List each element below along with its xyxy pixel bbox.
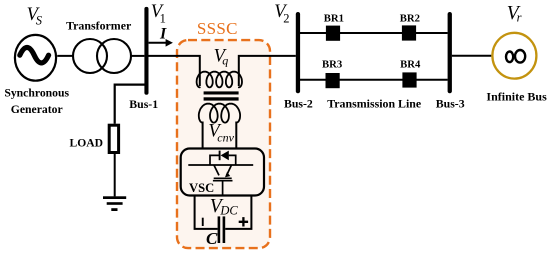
svg-text:Bus-2: Bus-2: [284, 97, 313, 111]
SSSC enclosure box: [177, 40, 270, 248]
series transformer primary winding: [197, 72, 242, 88]
label Vq: [214, 46, 229, 67]
label VDC: [210, 196, 239, 218]
IGBT with antiparallel diode: [188, 151, 253, 195]
breaker BR1: [326, 26, 340, 41]
svg-text:S: S: [36, 14, 43, 28]
svg-text:Transformer: Transformer: [66, 19, 132, 33]
series transformer core: [204, 91, 239, 100]
ground: [103, 196, 126, 211]
wire VSC left lead to DC capacitor: [195, 196, 218, 229]
svg-text:Transmission Line: Transmission Line: [327, 97, 421, 111]
svg-text:BR2: BR2: [400, 12, 420, 24]
label V2: [274, 2, 289, 25]
label C: [206, 229, 218, 248]
svg-text:q: q: [222, 54, 228, 68]
bus bar Bus-3: [448, 12, 452, 93]
label BR1: [324, 12, 344, 24]
svg-text:Synchronous: Synchronous: [4, 87, 69, 100]
svg-text:cnv: cnv: [217, 131, 234, 145]
transformer T: [73, 39, 131, 73]
svg-text:Bus-1: Bus-1: [129, 97, 158, 111]
converter VSC box: [181, 149, 264, 196]
wire load to ground: [114, 153, 116, 197]
breaker BR3: [326, 73, 340, 88]
bus bar Bus-1: [144, 7, 148, 95]
label Vcnv: [208, 122, 234, 145]
svg-text:Generator: Generator: [11, 103, 63, 116]
svg-text:1: 1: [160, 11, 166, 25]
wire series transformer right lead to Bus-2: [239, 56, 296, 86]
label V1: [151, 2, 166, 25]
transmission line upper conductor: [300, 32, 448, 34]
svg-text:Bus-3: Bus-3: [436, 97, 465, 111]
label Bus-1: [129, 97, 158, 111]
label I: [159, 25, 167, 42]
svg-text:Infinite Bus: Infinite Bus: [486, 90, 547, 104]
label BR3: [322, 58, 342, 70]
label Transmission Line: [327, 97, 421, 111]
label VSC: [189, 181, 214, 195]
label SSSC: [197, 19, 238, 38]
wire transformer to Bus-1: [132, 55, 144, 57]
wire generator to transformer: [57, 55, 74, 57]
breaker BR2: [402, 25, 416, 40]
label BR4: [400, 58, 421, 70]
plus terminal mark: [239, 217, 248, 226]
svg-text:LOAD: LOAD: [70, 137, 104, 150]
label LOAD: [70, 137, 104, 150]
transmission line lower conductor: [300, 79, 448, 81]
minus terminal mark: [202, 218, 204, 226]
current arrow: [149, 39, 173, 47]
synchronous generator G: [15, 35, 56, 81]
svg-text:DC: DC: [219, 204, 238, 218]
resistor LOAD: [109, 125, 118, 152]
svg-text:SSSC: SSSC: [197, 19, 238, 38]
label BR2: [400, 12, 420, 24]
wire Bus-1 to load branch: [115, 85, 146, 124]
wire secondary left lead to VSC: [202, 122, 204, 149]
label Vr: [507, 3, 522, 24]
label Transformer: [66, 19, 132, 33]
infinite bus source: [492, 33, 536, 79]
svg-text:C: C: [206, 229, 218, 248]
wire VSC right lead to DC capacitor: [225, 196, 251, 229]
svg-text:VSC: VSC: [189, 181, 214, 195]
label Infinite Bus: [486, 90, 547, 104]
svg-text:2: 2: [283, 11, 289, 25]
series transformer secondary winding: [199, 104, 240, 123]
breaker BR4: [402, 72, 416, 87]
svg-text:BR1: BR1: [324, 12, 344, 24]
label VS: [27, 5, 43, 28]
wire Bus-3 to infinite bus: [452, 55, 492, 57]
bus bar Bus-2: [296, 12, 300, 93]
label Synchronous Generator: [4, 87, 69, 116]
label Bus-2: [284, 97, 313, 111]
label Bus-3: [436, 97, 465, 111]
svg-text:BR4: BR4: [400, 58, 421, 70]
wire Bus-1 into SSSC (series transformer left lead): [148, 56, 199, 86]
svg-text:r: r: [517, 10, 522, 24]
wire secondary right lead to VSC: [235, 122, 237, 149]
capacitor C plates: [218, 216, 226, 243]
svg-text:BR3: BR3: [322, 58, 342, 70]
